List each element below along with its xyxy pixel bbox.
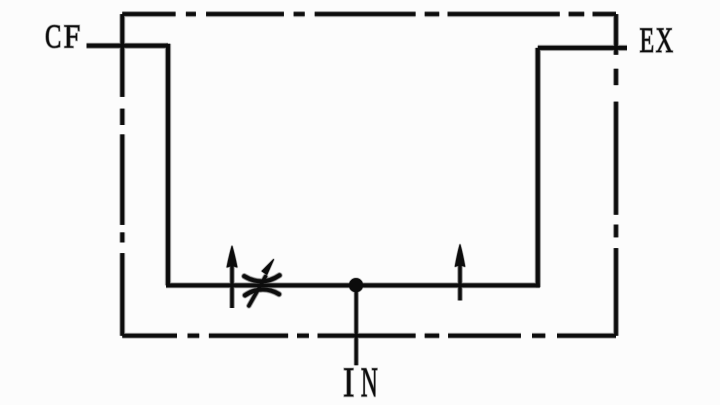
svg-text:X: X xyxy=(656,20,674,60)
enclosure border left (chain line) xyxy=(121,14,125,336)
flow arrow left head xyxy=(227,246,237,267)
enclosure border right (chain line) xyxy=(614,14,618,336)
svg-text:N: N xyxy=(361,360,378,405)
enclosure border top (chain line) xyxy=(122,12,616,16)
svg-text:C: C xyxy=(45,19,61,56)
svg-text:E: E xyxy=(640,20,655,60)
throttle bottom arc xyxy=(245,289,279,295)
flow arrow left shaft xyxy=(230,258,233,308)
wire left vertical xyxy=(166,44,170,286)
throttle adjust arrow head xyxy=(262,260,273,275)
wire bottom horizontal xyxy=(166,284,540,288)
svg-text:F: F xyxy=(64,19,81,56)
enclosure border bottom (chain line) xyxy=(122,334,616,338)
wire EX port line xyxy=(538,46,627,50)
flow arrow right shaft xyxy=(458,258,461,301)
wire right vertical xyxy=(536,48,540,287)
throttle top arc xyxy=(244,275,279,281)
svg-text:I: I xyxy=(343,360,354,405)
flow arrow right head xyxy=(455,245,464,266)
wire IN port line xyxy=(355,285,358,365)
throttle adjust arrow shaft xyxy=(249,277,266,306)
wire CF port line xyxy=(87,44,169,48)
node junction dot xyxy=(349,279,362,292)
